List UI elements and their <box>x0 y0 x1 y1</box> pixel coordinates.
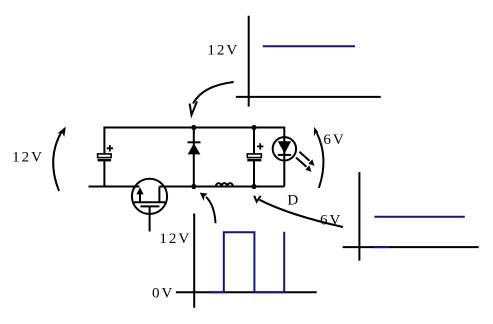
svg-text:12V: 12V <box>207 42 239 58</box>
svg-text:12V: 12V <box>159 231 191 247</box>
svg-text:0V: 0V <box>152 286 174 302</box>
svg-text:6V: 6V <box>323 132 345 148</box>
svg-text:6V: 6V <box>320 212 342 228</box>
svg-text:D: D <box>287 192 300 208</box>
svg-text:12V: 12V <box>12 150 44 166</box>
